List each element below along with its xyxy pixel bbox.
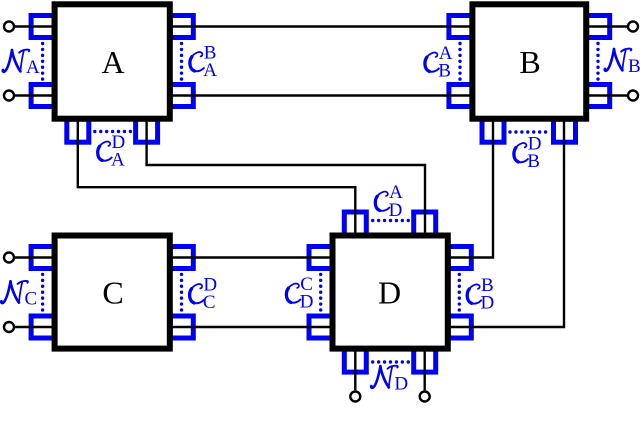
svg-text:D: D — [481, 293, 495, 314]
svg-text:A: A — [26, 57, 40, 78]
svg-text:C: C — [25, 289, 38, 310]
svg-text:D: D — [300, 292, 314, 313]
svg-text:D: D — [378, 275, 401, 311]
svg-text:C: C — [102, 275, 123, 311]
svg-text:B: B — [519, 44, 540, 80]
svg-text:A: A — [203, 60, 217, 81]
svg-text:A: A — [101, 44, 124, 80]
svg-text:A: A — [111, 150, 125, 171]
svg-text:B: B — [438, 61, 451, 82]
svg-text:B: B — [527, 151, 540, 172]
svg-text:C: C — [203, 292, 216, 313]
svg-text:D: D — [389, 200, 403, 221]
svg-text:D: D — [394, 373, 408, 394]
svg-text:B: B — [628, 56, 640, 77]
